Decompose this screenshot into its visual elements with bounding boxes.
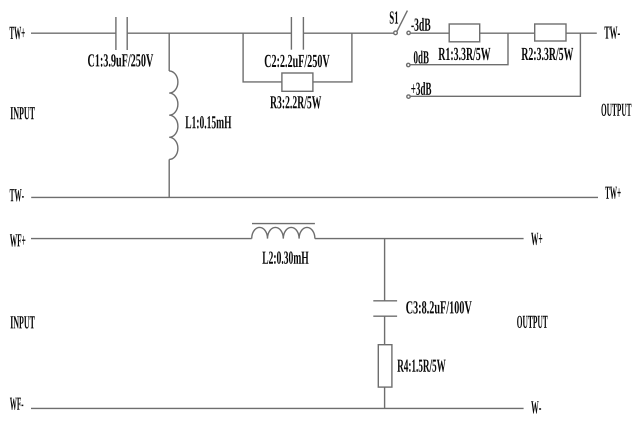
label TW+ bottom right <box>605 187 621 199</box>
label W+ right <box>531 233 542 245</box>
resistor R3 <box>282 73 313 91</box>
wire 0dB tap <box>410 33 508 64</box>
wire R4 to bottom rail <box>384 387 386 408</box>
wire node to C3 <box>384 239 386 301</box>
wire R1 to R2 <box>480 32 535 34</box>
capacitor C1 <box>116 17 127 50</box>
label L1 value <box>185 116 231 129</box>
resistor R1 <box>449 24 480 42</box>
label TW+ left <box>10 27 25 39</box>
resistor R4 <box>378 345 392 387</box>
label C1 value <box>88 54 153 67</box>
label OUTPUT top <box>601 104 631 116</box>
label C2 value <box>265 55 330 68</box>
wire +3dB tap <box>410 33 580 96</box>
label R4 value <box>397 360 445 373</box>
label -3dB <box>411 18 430 31</box>
wire C2 to switch common <box>303 32 393 34</box>
label INPUT bottom <box>11 316 35 328</box>
resistor R2 <box>535 24 566 41</box>
label WF+ left <box>10 234 26 246</box>
switch S1 <box>394 11 411 99</box>
wire TW- bottom rail <box>31 196 598 198</box>
wire TW+ input to C1 <box>31 32 116 34</box>
label S1 <box>390 11 398 23</box>
wire WF+ input to L2 <box>31 238 252 240</box>
capacitor C2 <box>291 17 303 50</box>
label R3 value <box>270 96 321 109</box>
label WF- left <box>10 398 23 410</box>
inductor L1 <box>169 33 178 197</box>
label +3dB <box>411 82 431 95</box>
label TW- bottom left <box>10 189 24 201</box>
label L2 value <box>262 251 308 264</box>
wire L2 to W+ terminal <box>315 238 524 240</box>
label R2 value <box>522 48 574 61</box>
wire parallel branch left <box>243 33 282 82</box>
wire R2 to TW- terminal <box>566 32 597 34</box>
label 0dB <box>414 51 429 64</box>
label R1 value <box>439 48 491 61</box>
inductor L2 <box>252 224 315 239</box>
label TW- top right <box>604 27 620 39</box>
wire C3 to R4 <box>384 316 386 345</box>
label INPUT top <box>11 107 35 119</box>
label C3 value <box>406 301 472 314</box>
capacitor C3 <box>373 301 397 316</box>
wire parallel branch right <box>313 33 352 82</box>
wire -3dB contact to R1 <box>410 32 449 34</box>
wire WF- bottom rail <box>31 407 524 409</box>
label W- right <box>531 401 541 413</box>
label OUTPUT bottom <box>517 316 548 328</box>
wire C1 to C2 <box>127 32 291 34</box>
